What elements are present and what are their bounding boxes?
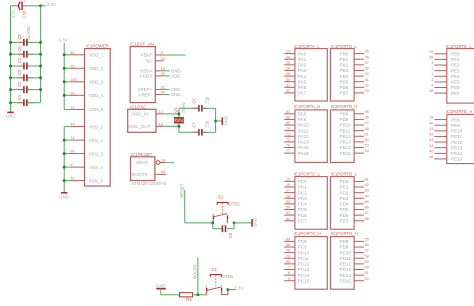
svg-text:PA4: PA4 <box>298 74 307 79</box>
svg-text:81: 81 <box>365 177 369 182</box>
pin VREF- (20) <box>139 90 181 98</box>
pin PB15 (54) <box>340 148 370 156</box>
pin PB12 (51) <box>340 131 369 139</box>
pin PC5 (34) <box>284 205 307 213</box>
svg-text:VDD_3: VDD_3 <box>89 80 104 85</box>
pin PC6 (63) <box>284 210 307 218</box>
svg-text:3.3V: 3.3V <box>47 2 56 7</box>
svg-text:25: 25 <box>286 60 290 65</box>
ground GND power rail <box>59 193 69 200</box>
svg-text:C5: C5 <box>17 46 22 52</box>
pin PE8 (39) <box>429 115 460 123</box>
supply 3.3V power rail <box>58 38 67 43</box>
svg-text:VDD: VDD <box>171 74 180 79</box>
svg-text:GND: GND <box>224 116 229 125</box>
svg-text:77: 77 <box>286 148 290 153</box>
pin PA4 (29) <box>284 71 306 79</box>
svg-text:PE9: PE9 <box>451 123 460 128</box>
svg-text:IC1PORTB_L: IC1PORTB_L <box>331 44 358 49</box>
svg-text:IC1OSC: IC1OSC <box>130 105 146 110</box>
pin PE12 (43) <box>429 137 462 145</box>
pin VSSA (19) <box>140 66 181 74</box>
pin PA0 (23) <box>284 49 306 57</box>
svg-text:C1: C1 <box>17 94 22 100</box>
svg-text:PD14: PD14 <box>340 273 352 278</box>
pin PE4 (3) <box>431 71 460 79</box>
net RESET <box>179 183 184 223</box>
svg-text:Q1: Q1 <box>173 107 178 113</box>
ground GND boot <box>156 284 166 295</box>
svg-text:PA10: PA10 <box>298 123 309 128</box>
svg-text:PE13: PE13 <box>451 145 463 150</box>
pin PE2 (1) <box>431 60 460 68</box>
pin OSC_OUT (13) <box>128 121 179 129</box>
wire left rail of cap bank <box>10 6 12 103</box>
pin PC4 (33) <box>284 199 307 207</box>
pin PB4 (90) <box>340 71 370 79</box>
svg-text:PA1: PA1 <box>298 57 307 62</box>
svg-text:97: 97 <box>429 49 433 54</box>
pin PB13 (52) <box>340 137 369 145</box>
svg-text:PC7: PC7 <box>298 218 307 223</box>
svg-text:41: 41 <box>429 126 433 131</box>
wire switch to gnd <box>234 222 251 224</box>
svg-text:PD13: PD13 <box>340 267 352 272</box>
pin PC12 (80) <box>284 259 310 267</box>
pin PB2 (37) <box>340 60 369 68</box>
svg-text:PC14: PC14 <box>298 273 310 278</box>
svg-text:38: 38 <box>429 88 433 93</box>
ground GND reset switch <box>252 218 257 227</box>
pin PB10 (47) <box>340 120 369 128</box>
svg-text:3.3V: 3.3V <box>234 286 243 291</box>
pin PD1 (82) <box>340 182 369 190</box>
value 5x100n <box>26 25 31 40</box>
svg-text:PE10: PE10 <box>451 129 463 134</box>
svg-text:23: 23 <box>286 49 290 54</box>
pin PC3 (18) <box>284 193 307 201</box>
pin PE0 (97) <box>429 49 460 57</box>
svg-text:56: 56 <box>365 242 369 247</box>
svg-text:2: 2 <box>431 66 433 71</box>
capacitor C10 <box>11 0 41 19</box>
wire right rail of cap bank <box>40 6 42 103</box>
pin PA13 (72) <box>284 137 309 145</box>
resistor R1 <box>180 293 193 303</box>
capacitor C4 <box>9 57 42 69</box>
IC U1 port section IC1PORTE_H box <box>446 109 474 164</box>
ground GND cap bank <box>6 103 16 119</box>
pin PA5 (30) <box>284 77 306 85</box>
svg-text:3: 3 <box>212 212 214 216</box>
svg-text:VDDA: VDDA <box>140 74 154 79</box>
svg-text:PE14: PE14 <box>451 151 463 156</box>
svg-text:PB13: PB13 <box>340 140 352 145</box>
IC U1 port section IC1PORTC_L box <box>294 171 328 229</box>
pin VBAT (6) <box>141 50 186 58</box>
pin PA10 (69) <box>284 120 309 128</box>
svg-text:31: 31 <box>286 82 290 87</box>
pin PC8 (65) <box>284 237 307 245</box>
svg-text:3: 3 <box>205 285 207 289</box>
pin PD15 (62) <box>340 276 369 284</box>
svg-text:4.7u: 4.7u <box>11 10 16 19</box>
svg-text:63: 63 <box>286 210 290 215</box>
wire gnd to R1 <box>161 294 180 296</box>
svg-text:C2: C2 <box>17 81 22 87</box>
svg-text:PD3: PD3 <box>340 196 349 201</box>
pin PA8 (67) <box>284 109 306 117</box>
svg-text:57: 57 <box>365 248 369 253</box>
pin VSS_3 (99) <box>63 149 104 157</box>
svg-text:82: 82 <box>365 182 369 187</box>
svg-text:C3: C3 <box>17 69 22 75</box>
svg-text:BOOT0: BOOT0 <box>193 264 198 279</box>
svg-text:89: 89 <box>365 66 369 71</box>
svg-text:IC1PORTD_L: IC1PORTD_L <box>331 171 358 176</box>
svg-text:11: 11 <box>70 105 74 110</box>
svg-text:PB8: PB8 <box>340 112 349 117</box>
svg-text:PC5: PC5 <box>298 207 307 212</box>
pin PC0 (15) <box>284 177 307 185</box>
svg-text:61: 61 <box>365 270 369 275</box>
svg-text:22: 22 <box>161 71 165 76</box>
svg-text:PC8: PC8 <box>298 239 307 244</box>
svg-text:IC1RESET: IC1RESET <box>131 152 153 157</box>
svg-text:36: 36 <box>365 54 369 59</box>
svg-text:42: 42 <box>429 132 433 137</box>
svg-text:VDD_2: VDD_2 <box>89 66 104 71</box>
supply 3.3V boot switch <box>226 286 243 292</box>
IC U1 port section IC1PORTD_H box <box>330 231 357 289</box>
pin BOOT0 (94) <box>132 169 167 177</box>
svg-text:9: 9 <box>288 276 290 281</box>
svg-text:PC10: PC10 <box>298 250 310 255</box>
ground GND crystal <box>222 116 228 125</box>
svg-text:PD2: PD2 <box>340 190 349 195</box>
pin VREF+ (21) <box>137 84 180 92</box>
svg-text:15: 15 <box>286 177 290 182</box>
svg-text:87: 87 <box>365 210 369 215</box>
svg-text:59: 59 <box>365 259 369 264</box>
svg-text:PA3: PA3 <box>298 68 307 73</box>
svg-text:67: 67 <box>286 109 290 114</box>
svg-text:PE2: PE2 <box>451 63 460 68</box>
svg-text:PA14: PA14 <box>298 145 309 150</box>
svg-text:12: 12 <box>159 109 163 114</box>
svg-text:48: 48 <box>365 126 369 131</box>
pin PA9 (68) <box>284 115 306 123</box>
pin VSS_1 (49) <box>64 122 103 130</box>
svg-text:PC12: PC12 <box>298 262 310 267</box>
svg-text:R1: R1 <box>186 297 192 302</box>
svg-text:3: 3 <box>431 71 433 76</box>
svg-text:PA0: PA0 <box>298 51 307 56</box>
pin VDD_2 (75) <box>63 63 104 71</box>
svg-text:PC0: PC0 <box>298 179 307 184</box>
svg-text:PE1: PE1 <box>451 57 460 62</box>
svg-text:OSC_OUT: OSC_OUT <box>128 124 150 129</box>
svg-text:C10: C10 <box>22 10 27 18</box>
svg-text:71: 71 <box>286 131 290 136</box>
pin PA15 (77) <box>284 148 309 156</box>
svg-text:S1: S1 <box>218 194 224 199</box>
svg-text:53: 53 <box>365 143 369 148</box>
pin PB7 (93) <box>340 88 369 96</box>
pin VDD_1 (50) <box>63 50 104 58</box>
svg-text:S2: S2 <box>211 267 217 272</box>
svg-text:8MHz: 8MHz <box>181 102 186 113</box>
svg-text:VSS_4: VSS_4 <box>89 165 104 170</box>
svg-text:5x100n: 5x100n <box>26 25 31 40</box>
pin PE5 (4) <box>431 77 460 85</box>
svg-text:PE12: PE12 <box>451 140 463 145</box>
pin PE15 (46) <box>429 154 462 162</box>
svg-text:37: 37 <box>365 60 369 65</box>
svg-text:GND: GND <box>156 284 166 289</box>
pin PE11 (42) <box>429 132 462 140</box>
svg-text:22p: 22p <box>204 120 209 128</box>
svg-text:49: 49 <box>70 122 74 127</box>
svg-text:PA8: PA8 <box>298 112 307 117</box>
pin PD4 (85) <box>340 199 369 207</box>
svg-text:PE5: PE5 <box>451 80 460 85</box>
svg-text:PC1: PC1 <box>298 185 307 190</box>
svg-text:PB1: PB1 <box>340 57 349 62</box>
IC U1 port section IC1PORTA_H box <box>294 104 328 162</box>
pin NC (73) <box>146 56 165 64</box>
capacitor C1 <box>9 94 41 106</box>
svg-text:PB14: PB14 <box>340 145 352 150</box>
svg-text:PA5: PA5 <box>298 79 307 84</box>
wire VSS rail <box>63 127 65 193</box>
pin PC11 (79) <box>284 253 309 261</box>
IC U1 port section IC1PORTC_H box <box>294 231 328 289</box>
pin PB8 (95) <box>340 109 369 117</box>
node crystal gnd junction <box>214 108 222 132</box>
svg-text:35: 35 <box>365 49 369 54</box>
pin PE7 (38) <box>429 88 460 96</box>
svg-text:PB0: PB0 <box>340 51 349 56</box>
pin PB9 (96) <box>340 115 369 123</box>
svg-text:BOOT0: BOOT0 <box>132 172 148 177</box>
svg-text:PC2: PC2 <box>298 190 307 195</box>
svg-text:VBAT: VBAT <box>141 53 153 58</box>
pin PE14 (45) <box>429 148 462 156</box>
svg-text:VSS_3: VSS_3 <box>89 151 104 156</box>
svg-text:PA2: PA2 <box>298 63 307 68</box>
svg-text:PD12: PD12 <box>340 262 352 267</box>
svg-text:79: 79 <box>286 253 290 258</box>
svg-text:47: 47 <box>365 120 369 125</box>
svg-text:C9: C9 <box>228 232 233 238</box>
svg-text:PD10: PD10 <box>340 250 352 255</box>
svg-text:PA9: PA9 <box>298 117 307 122</box>
svg-text:PB2: PB2 <box>340 63 349 68</box>
svg-text:62: 62 <box>365 276 369 281</box>
svg-text:92: 92 <box>365 82 369 87</box>
switch S1 <box>212 194 240 223</box>
svg-text:PE4: PE4 <box>451 74 460 79</box>
svg-text:75: 75 <box>70 63 74 68</box>
svg-text:PB7: PB7 <box>340 91 349 96</box>
pin PA12 (71) <box>284 131 309 139</box>
svg-text:55: 55 <box>365 237 369 242</box>
svg-text:C8: C8 <box>17 34 22 40</box>
pin PC15 (9) <box>284 276 310 284</box>
svg-text:PB6: PB6 <box>340 85 349 90</box>
svg-text:13: 13 <box>159 121 163 126</box>
svg-text:IC1PORTC_L: IC1PORTC_L <box>294 171 321 176</box>
IC U1 port section IC1PORTB_H box <box>330 104 357 162</box>
svg-text:68: 68 <box>286 115 290 120</box>
pin PA1 (24) <box>284 54 306 62</box>
svg-text:IC1PORTB_H: IC1PORTB_H <box>331 104 358 109</box>
svg-text:5: 5 <box>431 83 433 88</box>
svg-text:98: 98 <box>429 55 433 60</box>
svg-text:PA12: PA12 <box>298 134 309 139</box>
svg-text:91: 91 <box>365 77 369 82</box>
svg-text:95: 95 <box>365 109 369 114</box>
pin PE6 (5) <box>431 83 460 91</box>
svg-text:VREF-: VREF- <box>139 92 153 97</box>
svg-text:IC1PORTC_H: IC1PORTC_H <box>294 231 321 236</box>
svg-text:46: 46 <box>429 154 433 159</box>
pin VSS_4 (27) <box>63 162 104 170</box>
svg-text:GND: GND <box>59 194 69 199</box>
pin PD13 (60) <box>340 265 370 273</box>
IC U1 analog/battery section IC1BAT_AN box <box>130 42 155 103</box>
capacitor C2 <box>9 81 42 93</box>
svg-text:96: 96 <box>365 115 369 120</box>
net BOOT0 <box>193 257 200 296</box>
svg-text:1: 1 <box>226 212 228 216</box>
svg-text:100: 100 <box>70 77 77 82</box>
capacitor C5 <box>9 46 42 58</box>
svg-text:PE8: PE8 <box>451 117 460 122</box>
pin PD5 (86) <box>340 205 369 213</box>
pin VDD_4 (28) <box>63 90 104 98</box>
pin PC1 (16) <box>284 182 307 190</box>
svg-text:PC11: PC11 <box>298 256 310 261</box>
pin PD6 (87) <box>340 210 369 218</box>
svg-text:PB5: PB5 <box>340 79 349 84</box>
IC U1 port section IC1PORTA_L box <box>294 44 328 101</box>
wire R1 to junction <box>193 294 207 296</box>
svg-text:PD8: PD8 <box>340 239 349 244</box>
svg-text:78: 78 <box>286 248 290 253</box>
svg-text:PB10: PB10 <box>340 123 352 128</box>
svg-text:39: 39 <box>429 115 433 120</box>
svg-text:VDD_1: VDD_1 <box>89 53 104 58</box>
node 3.3V top <box>39 2 56 7</box>
pin PC10 (78) <box>284 248 310 256</box>
svg-text:PE3: PE3 <box>451 68 460 73</box>
svg-text:28: 28 <box>70 90 74 95</box>
svg-text:C7: C7 <box>191 122 196 128</box>
svg-text:C4: C4 <box>17 57 22 63</box>
pin PC13 (7) <box>284 265 310 273</box>
pin PA11 (70) <box>284 126 309 134</box>
svg-text:65: 65 <box>286 237 290 242</box>
svg-text:NC: NC <box>146 59 153 64</box>
svg-text:PC3: PC3 <box>298 196 307 201</box>
svg-text:85: 85 <box>365 199 369 204</box>
pin PB1 (36) <box>340 54 369 62</box>
capacitor C3 <box>9 69 42 81</box>
svg-text:73: 73 <box>161 56 165 61</box>
pin VDDA (22) <box>140 71 181 79</box>
svg-text:DTE6: DTE6 <box>229 202 241 207</box>
svg-text:PC9: PC9 <box>298 245 307 250</box>
wire VDD rail <box>63 43 65 110</box>
IC U1 power section IC1POWER box <box>85 43 111 186</box>
svg-text:52: 52 <box>365 137 369 142</box>
pin PA3 (26) <box>284 66 306 74</box>
capacitor C9 <box>211 221 235 238</box>
pin PD7 (88) <box>340 216 369 224</box>
pin OSC_IN (12) <box>132 109 179 117</box>
IC U1 port section IC1PORTB_L box <box>330 44 357 101</box>
pin PD14 (61) <box>340 270 369 278</box>
svg-text:PC13: PC13 <box>298 267 310 272</box>
svg-text:+: + <box>23 0 26 4</box>
pin PC2 (17) <box>284 188 307 196</box>
svg-text:66: 66 <box>286 242 290 247</box>
svg-text:PD7: PD7 <box>340 218 349 223</box>
pin VDD_5 (11) <box>64 105 104 113</box>
pin VSS_2 (74) <box>63 135 104 143</box>
svg-text:VSS_5: VSS_5 <box>89 178 104 183</box>
svg-text:76: 76 <box>286 143 290 148</box>
svg-text:IC1PORTA_H: IC1PORTA_H <box>294 104 321 109</box>
svg-text:26: 26 <box>286 66 290 71</box>
svg-text:GND: GND <box>6 113 16 118</box>
svg-text:29: 29 <box>286 71 290 76</box>
svg-text:IC1PORTD_H: IC1PORTD_H <box>331 231 358 236</box>
svg-text:86: 86 <box>365 205 369 210</box>
svg-text:PD9: PD9 <box>340 245 349 250</box>
pin PB6 (92) <box>340 82 369 90</box>
svg-text:PD15: PD15 <box>340 278 352 283</box>
pin PD3 (84) <box>340 193 370 201</box>
pin PB14 (53) <box>340 143 369 151</box>
pin PD0 (81) <box>340 177 369 185</box>
svg-text:88: 88 <box>365 216 369 221</box>
svg-text:IC1POWER: IC1POWER <box>86 43 109 48</box>
svg-text:IC1PORTA_L: IC1PORTA_L <box>294 44 320 49</box>
pin PD8 (55) <box>340 237 369 245</box>
pin PE9 (40) <box>429 120 460 128</box>
svg-text:3.3V: 3.3V <box>58 38 67 43</box>
svg-text:32: 32 <box>286 88 290 93</box>
svg-text:VSS_1: VSS_1 <box>89 124 104 129</box>
pin PC9 (66) <box>284 242 307 250</box>
svg-text:27: 27 <box>70 162 74 167</box>
svg-text:PA7: PA7 <box>298 91 307 96</box>
pin PC14 (8) <box>284 270 310 278</box>
svg-text:8: 8 <box>288 270 290 275</box>
svg-text:PB9: PB9 <box>340 117 349 122</box>
svg-text:PC15: PC15 <box>298 278 310 283</box>
pin PC7 (64) <box>284 216 307 224</box>
pin PA7 (32) <box>284 88 306 96</box>
svg-text:PE15: PE15 <box>451 157 463 162</box>
svg-text:PD5: PD5 <box>340 207 349 212</box>
pin PD11 (58) <box>340 253 369 261</box>
svg-text:1: 1 <box>220 285 222 289</box>
svg-text:1: 1 <box>431 60 433 65</box>
